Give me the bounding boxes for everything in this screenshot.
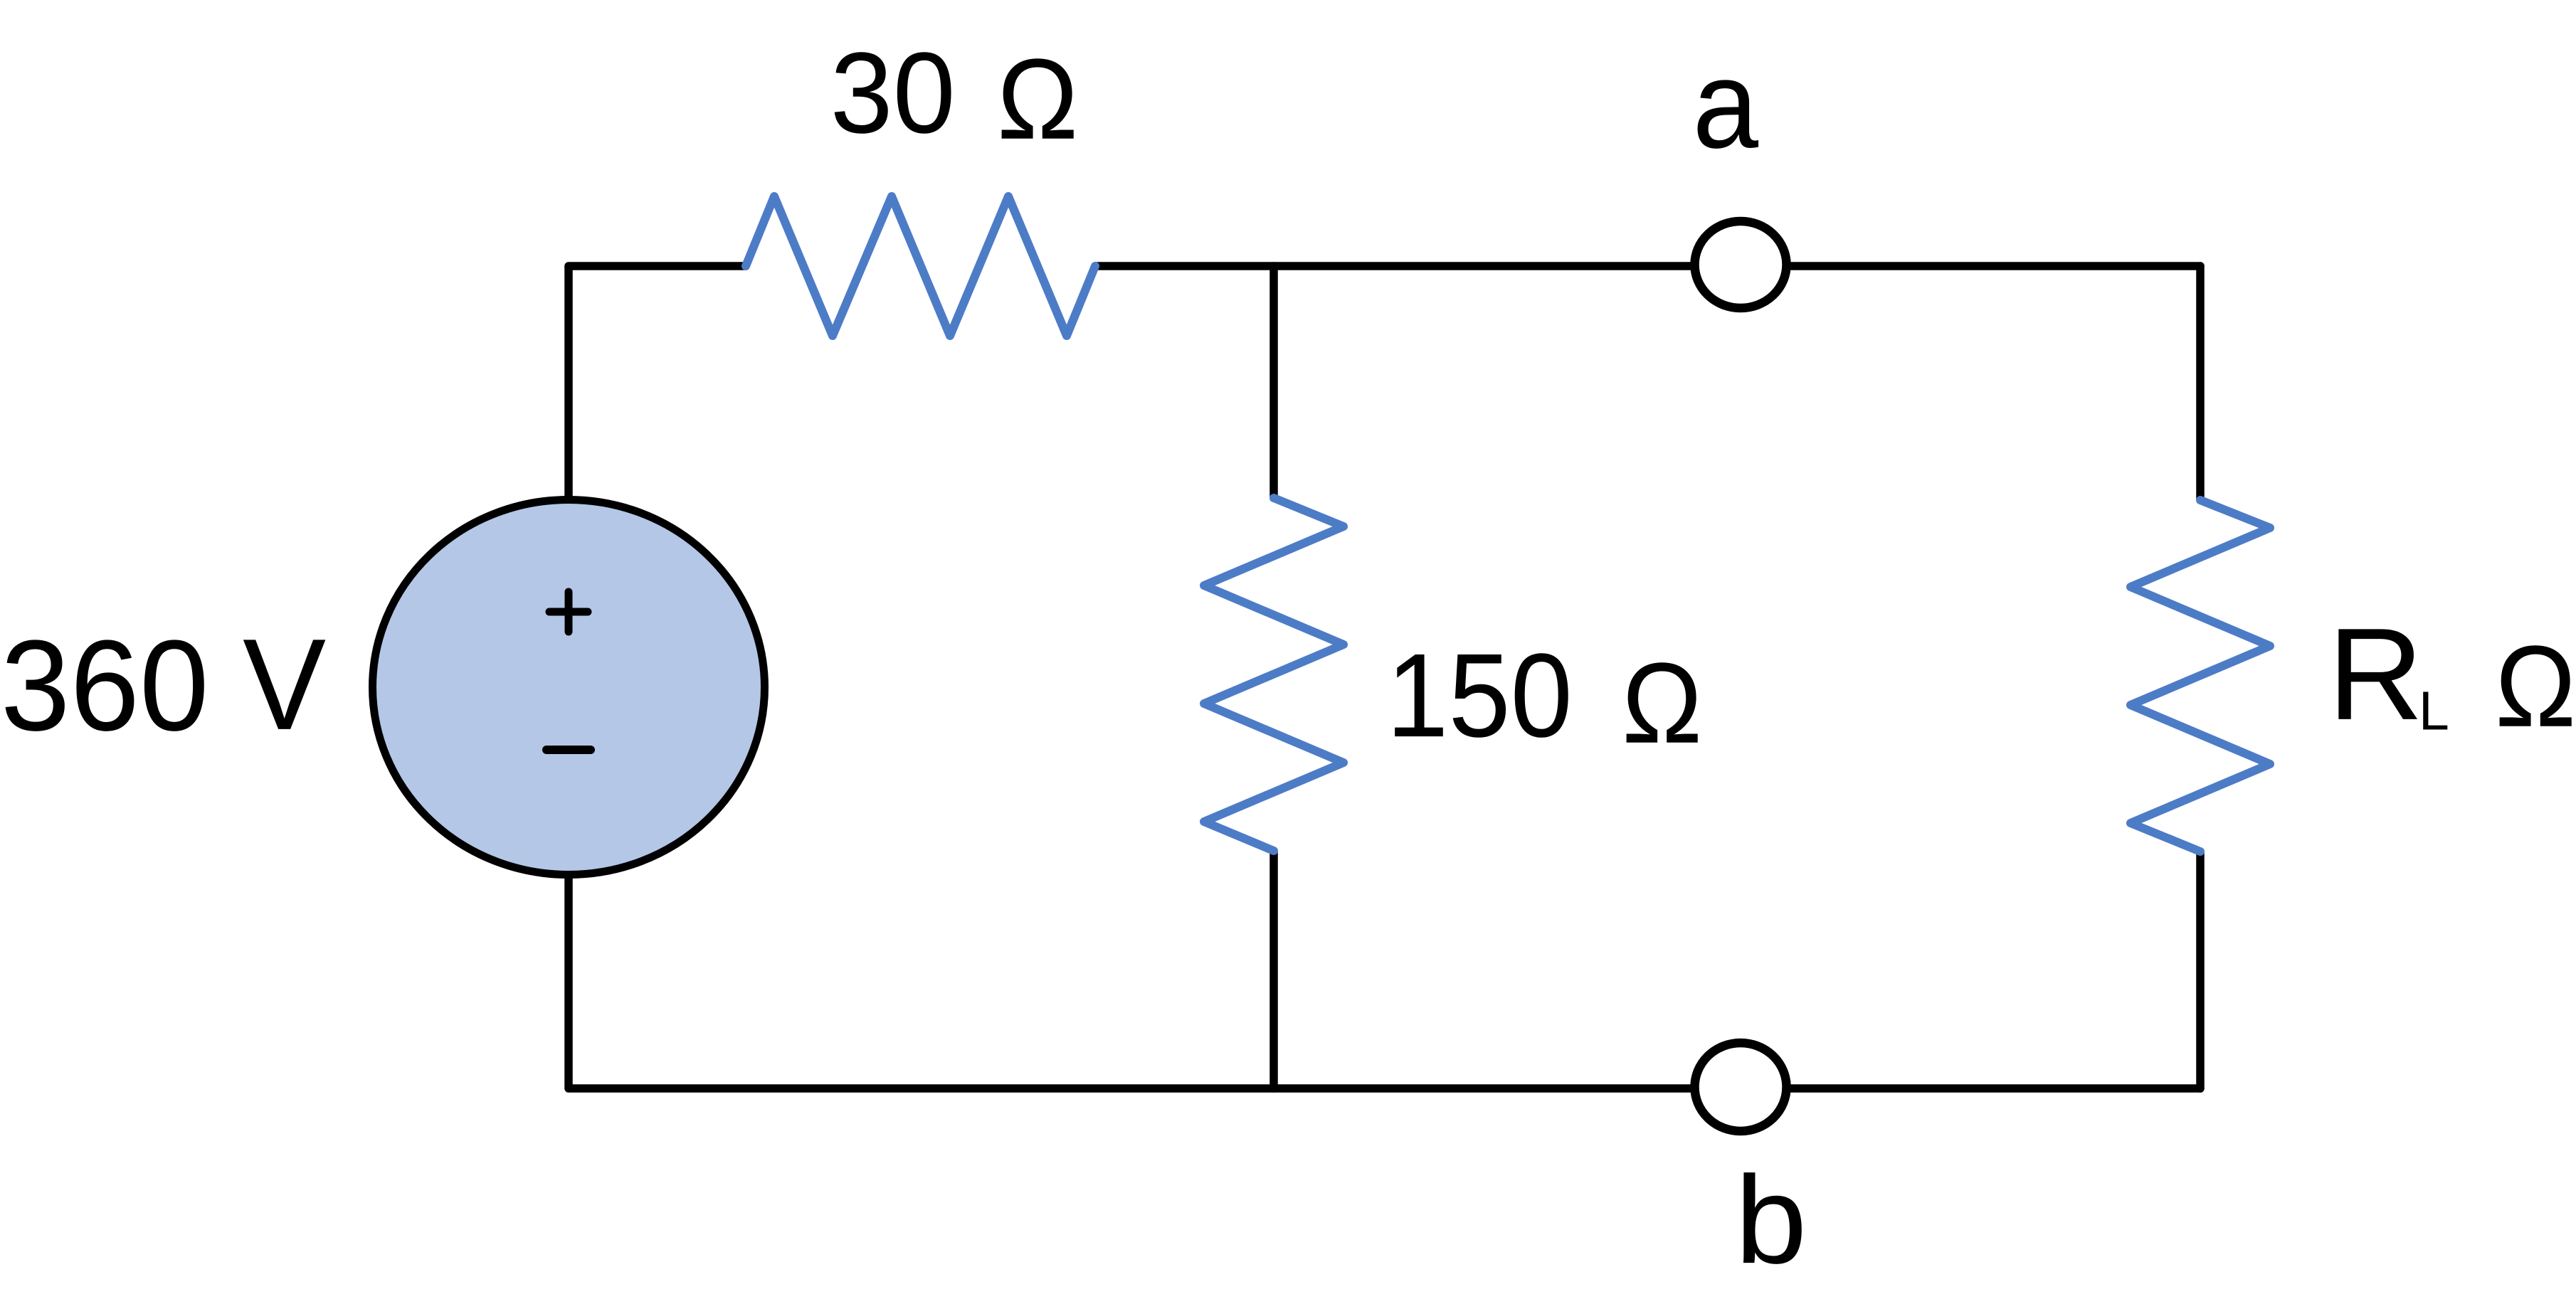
terminal a (open circle on top wire) bbox=[1695, 221, 1787, 308]
minus sign (source negative polarity mark) bbox=[547, 746, 591, 754]
svg-text:Ω: Ω bbox=[2495, 622, 2576, 751]
svg-text:Ω: Ω bbox=[1622, 640, 1702, 767]
resistor 150 ohm (vertical blue zigzag, middle branch) bbox=[1204, 498, 1344, 851]
wire: right vertical lower, RL resistor down to bottom-right corner bbox=[2196, 852, 2205, 1088]
svg-text:R: R bbox=[2328, 601, 2424, 748]
wire: left vertical, top corner down to voltage source top bbox=[564, 266, 573, 498]
terminal b (open circle on bottom wire) bbox=[1695, 1043, 1787, 1131]
svg-text:L: L bbox=[2419, 680, 2449, 741]
resistor RL (vertical blue zigzag, right branch) bbox=[2131, 500, 2270, 852]
wire: middle branch upper, junction on top wire down to 150-ohm resistor bbox=[1269, 266, 1278, 498]
wire: right vertical upper, top-right corner down to RL resistor bbox=[2196, 266, 2205, 500]
svg-text:V: V bbox=[243, 612, 326, 757]
wire: bottom, from below source through terminal b to bottom-right corner bbox=[569, 1084, 2200, 1093]
svg-text:30: 30 bbox=[830, 28, 956, 157]
wire: left vertical, voltage source bottom down to bottom-left corner bbox=[564, 876, 573, 1088]
svg-text:a: a bbox=[1693, 35, 1759, 174]
wire: top, 30-ohm resistor right lead through terminal a to top-right corner bbox=[1095, 262, 2200, 270]
resistor 30 ohm (horizontal blue zigzag on top wire) bbox=[746, 196, 1095, 336]
svg-text:b: b bbox=[1735, 1150, 1807, 1289]
plus sign (source positive polarity mark) bbox=[549, 592, 588, 632]
svg-text:360: 360 bbox=[1, 613, 209, 757]
wire: top-left, source + terminal to 30-ohm resistor left lead bbox=[569, 262, 746, 270]
voltage source 360 V (circle, light blue fill) bbox=[373, 500, 765, 875]
wire: middle branch lower, 150-ohm resistor down to junction on bottom wire bbox=[1269, 851, 1278, 1088]
svg-text:Ω: Ω bbox=[997, 36, 1078, 164]
svg-text:150: 150 bbox=[1386, 629, 1573, 762]
